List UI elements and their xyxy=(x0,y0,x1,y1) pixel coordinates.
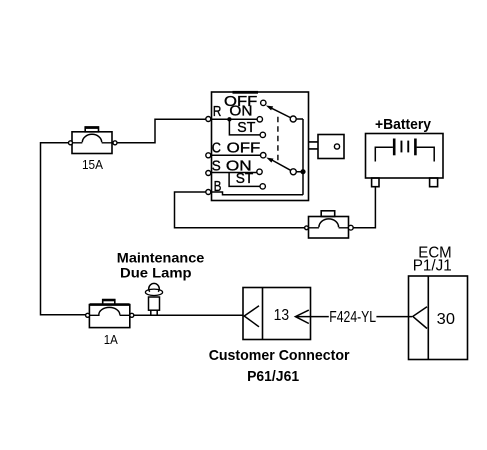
svg-text:13: 13 xyxy=(274,307,290,324)
svg-text:15A: 15A xyxy=(82,157,103,172)
svg-text:C: C xyxy=(212,139,221,156)
svg-text:S: S xyxy=(212,158,221,175)
svg-text:B: B xyxy=(214,178,222,195)
svg-text:P61/J61: P61/J61 xyxy=(247,368,299,385)
svg-text:ON: ON xyxy=(229,102,252,119)
svg-text:Due Lamp: Due Lamp xyxy=(120,265,192,281)
svg-text:Customer Connector: Customer Connector xyxy=(209,347,350,364)
svg-text:30: 30 xyxy=(437,311,455,328)
svg-text:R: R xyxy=(213,103,222,120)
svg-text:P1/J1: P1/J1 xyxy=(413,258,452,275)
svg-text:OFF: OFF xyxy=(227,139,261,156)
svg-text:1A: 1A xyxy=(104,332,118,347)
svg-text:F424-YL: F424-YL xyxy=(329,309,376,326)
svg-text:+Battery: +Battery xyxy=(375,116,432,133)
svg-text:Maintenance: Maintenance xyxy=(117,250,205,266)
svg-text:ST: ST xyxy=(237,119,255,136)
svg-text:ST: ST xyxy=(236,170,254,187)
